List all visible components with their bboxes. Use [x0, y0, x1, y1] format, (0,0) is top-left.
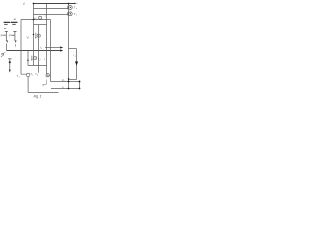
- svg-text:2: 2: [63, 88, 64, 90]
- svg-text:1: 1: [19, 77, 20, 79]
- svg-text:1: 1: [75, 56, 76, 58]
- svg-text:1: 1: [36, 19, 37, 21]
- svg-text:2: 2: [40, 60, 41, 62]
- svg-text:b: b: [37, 75, 38, 77]
- svg-text:Fig. 1: Fig. 1: [34, 95, 42, 99]
- svg-text:a: a: [64, 81, 65, 83]
- svg-text:F: F: [9, 34, 11, 38]
- svg-text:n: n: [76, 8, 77, 10]
- svg-text:F: F: [1, 34, 3, 38]
- svg-text:1: 1: [41, 48, 42, 50]
- svg-text:a: a: [32, 75, 33, 77]
- svg-text:n: n: [76, 15, 77, 17]
